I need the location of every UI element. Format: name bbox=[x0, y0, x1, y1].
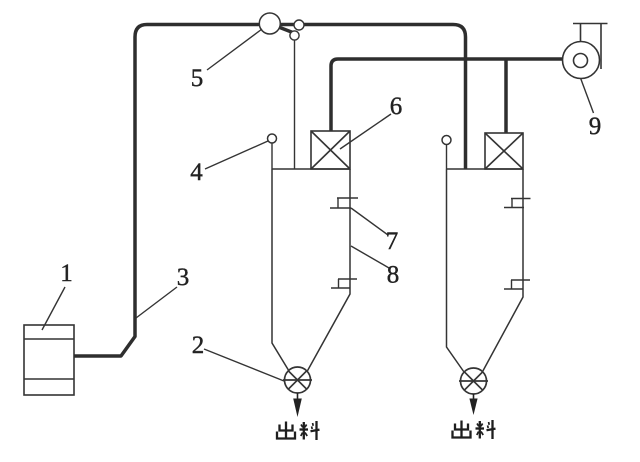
silo 2 body: roof, walls and cone to valve bbox=[447, 169, 524, 372]
bag filter 6 on silo 1 bbox=[311, 131, 350, 169]
svg-text:8: 8 bbox=[387, 262, 400, 289]
leader line for label 7 bbox=[351, 208, 388, 235]
leader line for label 2 bbox=[204, 349, 284, 381]
svg-text:1: 1 bbox=[60, 260, 73, 287]
svg-text:2: 2 bbox=[192, 332, 205, 359]
level indicator upper on silo 2 bbox=[504, 199, 531, 208]
diverter valve 5: main circle bbox=[259, 13, 280, 34]
discharge text 出料 silo 2 bbox=[453, 421, 471, 438]
vent port 4 on silo 1 bbox=[271, 142, 273, 169]
feeder hopper 1 bbox=[24, 325, 74, 395]
svg-text:7: 7 bbox=[386, 228, 399, 255]
bag filter on silo 2 bbox=[485, 133, 523, 169]
svg-text:9: 9 bbox=[589, 113, 602, 140]
diverter valve 5: branch stub to lower outlet bbox=[276, 26, 294, 33]
drop pipe from diverter lower outlet to silo 1 roof bbox=[294, 40, 296, 169]
svg-text:4: 4 bbox=[190, 159, 203, 186]
discharge arrow silo 1 bbox=[297, 393, 299, 399]
rotary discharge valve on silo 2 bbox=[459, 368, 488, 394]
leader line for label 9 bbox=[581, 78, 594, 113]
silo 1 body: roof, walls and cone to valve bbox=[272, 169, 350, 371]
svg-text:5: 5 bbox=[191, 65, 204, 92]
suction line: filter 1 up and across to blower 9 bbox=[331, 59, 562, 131]
svg-text:6: 6 bbox=[390, 93, 403, 120]
leader line for label 3 bbox=[136, 287, 177, 318]
blower 9 bbox=[563, 24, 608, 79]
level indicator lower on silo 2 bbox=[504, 280, 530, 289]
conveying pipe 3: feeder outlet up and across the top to silo 2 inlet bbox=[74, 25, 466, 357]
leader line for label 1 bbox=[42, 287, 65, 330]
leader line for label 6 bbox=[340, 114, 391, 149]
discharge arrow silo 2 bbox=[473, 394, 475, 399]
leader line for label 8 bbox=[351, 246, 389, 268]
discharge text 出料 silo 1 bbox=[277, 422, 295, 439]
leader line for label 4 bbox=[205, 141, 268, 169]
leader line for label 5 bbox=[207, 29, 262, 70]
diverter valve 5: lower outlet circle bbox=[290, 31, 299, 40]
svg-text:3: 3 bbox=[177, 264, 190, 291]
suction line tee down to filter 2 bbox=[504, 59, 508, 133]
diverter valve 5: right outlet circle bbox=[294, 20, 304, 30]
rotary discharge valve 2 on silo 1 bbox=[283, 367, 312, 393]
level indicator 7 on silo 1 bbox=[330, 198, 358, 208]
level indicator 8 on silo 1 bbox=[331, 279, 357, 288]
vent port on silo 2 bbox=[446, 144, 448, 169]
